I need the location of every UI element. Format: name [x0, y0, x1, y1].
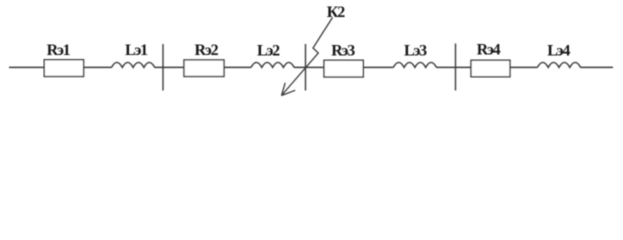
- svg-text:Rэ3: Rэ3: [331, 43, 355, 60]
- svg-text:Lэ3: Lэ3: [404, 42, 427, 59]
- svg-text:К2: К2: [327, 4, 345, 21]
- svg-text:Lэ4: Lэ4: [547, 42, 570, 59]
- svg-text:Rэ2: Rэ2: [195, 42, 219, 59]
- svg-text:Rэ1: Rэ1: [47, 42, 71, 59]
- svg-text:Rэ4: Rэ4: [477, 41, 501, 58]
- svg-text:Lэ2: Lэ2: [257, 43, 280, 60]
- svg-text:Lэ1: Lэ1: [125, 42, 148, 59]
